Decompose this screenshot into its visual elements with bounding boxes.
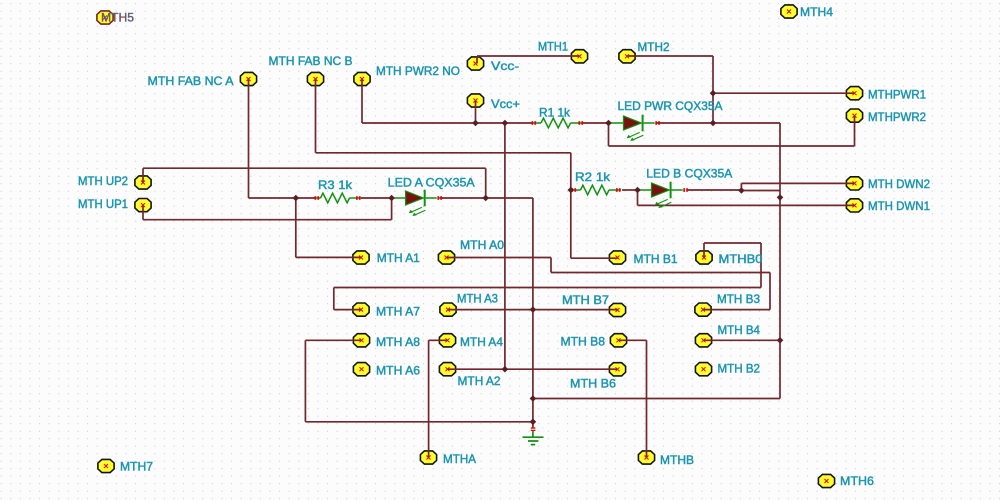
- svg-text:MTH B8: MTH B8: [561, 335, 606, 349]
- wire VCC- pad drop: [476, 56, 478, 64]
- wire net MTH1-VCC- horizontal: [477, 55, 580, 57]
- pad MTH A8: [353, 334, 369, 347]
- wire LED A cathode to ground vertical: [439, 197, 533, 199]
- svg-text:MTH B7: MTH B7: [562, 293, 609, 307]
- svg-text:MTH DWN1: MTH DWN1: [868, 199, 930, 213]
- wire horizontal y398 ground to x780: [533, 398, 780, 400]
- wire to MTH DWN2: [741, 183, 854, 190]
- pad MTH UP1: [135, 199, 151, 212]
- wire LED PWR cathode to x780: [657, 122, 780, 124]
- pad MTH A3: [440, 303, 456, 316]
- wire MTH B4 to x780: [704, 339, 781, 341]
- svg-text:LED B CQX35A: LED B CQX35A: [646, 167, 732, 181]
- resistor R3: [315, 197, 321, 199]
- resistor R2: [572, 189, 581, 191]
- wire MTH A8 to ground: [305, 340, 533, 422]
- svg-text:MTHB0: MTHB0: [719, 252, 763, 266]
- svg-text:MTH DWN2: MTH DWN2: [868, 177, 930, 191]
- pad MTH B1: [609, 251, 625, 264]
- svg-text:MTH A0: MTH A0: [460, 238, 504, 252]
- svg-text:MTH A2: MTH A2: [458, 374, 501, 388]
- pad MTHB0: [696, 251, 712, 264]
- svg-text:MTH B6: MTH B6: [570, 377, 616, 391]
- wire MTH A2 to MTH B6: [448, 368, 618, 370]
- svg-text:MTH A8: MTH A8: [376, 335, 420, 349]
- node junction ground y421: [530, 419, 537, 426]
- wire ground vertical x533: [532, 198, 534, 429]
- svg-text:R3 1k: R3 1k: [318, 178, 353, 192]
- wire LED B cathode to junction: [687, 189, 741, 191]
- wire vertical x780: [779, 123, 781, 399]
- pad MTH UP2: [135, 176, 151, 189]
- wire MTH B8 to MTHB: [619, 340, 647, 457]
- svg-text:MTH FAB NC A: MTH FAB NC A: [148, 74, 234, 88]
- svg-text:LED PWR CQX35A: LED PWR CQX35A: [618, 99, 723, 113]
- pad MTHB: [638, 451, 654, 464]
- svg-text:MTH2: MTH2: [638, 40, 670, 54]
- pad MTH A1: [353, 251, 369, 264]
- svg-text:MTH A4: MTH A4: [460, 335, 503, 349]
- svg-text:MTHA: MTHA: [443, 452, 476, 466]
- pad MTH6: [818, 474, 834, 487]
- wire R3 to LED A: [361, 197, 392, 199]
- svg-text:MTH B4: MTH B4: [718, 323, 761, 337]
- svg-text:MTH B3: MTH B3: [717, 292, 760, 306]
- pad MTH A7: [353, 303, 369, 316]
- pad MTH B3: [695, 303, 711, 316]
- wire R1 to LED PWR: [583, 122, 609, 124]
- pad MTH A2: [439, 363, 455, 376]
- node junction x780: [777, 194, 784, 201]
- LED A CQX35A diode: [391, 197, 406, 199]
- svg-text:MTH1: MTH1: [538, 40, 568, 54]
- wire junction to R3: [296, 197, 315, 199]
- pad MTH DWN1: [846, 199, 862, 212]
- wire junction to MTH A1: [296, 198, 361, 257]
- pad MTH PWR2 NO: [354, 72, 370, 85]
- resistor R1: [532, 122, 542, 124]
- node junction x713 main row: [710, 120, 717, 127]
- pad pin marks: [787, 10, 791, 14]
- wire junction to x780: [741, 190, 780, 192]
- wire MTH UP2 to LED A cathode: [143, 168, 486, 198]
- pad MTH B8: [610, 334, 626, 347]
- node junction LED A anode: [388, 195, 395, 202]
- wire MTH2 to vertical: [627, 55, 713, 57]
- node junction ground row A3-B7: [530, 306, 537, 313]
- node junction MTH B4 tap: [777, 337, 784, 344]
- node junction ground y398: [530, 395, 537, 402]
- pad MTH2: [619, 50, 635, 63]
- svg-text:MTHB: MTHB: [660, 453, 694, 467]
- wire to MTHPWR1: [713, 92, 855, 94]
- pad Vcc+: [467, 94, 483, 107]
- node junction LED A cathode: [482, 195, 489, 202]
- pad Vcc-: [467, 57, 483, 70]
- node junction R2 left: [568, 187, 575, 194]
- LED PWR CQX35A diode: [609, 122, 624, 124]
- node junction Vcc+ main row: [472, 120, 479, 127]
- svg-text:MTH7: MTH7: [120, 460, 153, 474]
- node junction LED PWR anode: [605, 120, 612, 127]
- pad MTHPWR2: [846, 109, 862, 122]
- svg-text:MTH5: MTH5: [101, 11, 134, 25]
- pad MTH1: [571, 50, 587, 63]
- LED B CQX35A diode: [637, 189, 652, 191]
- wire main row left segment: [362, 122, 532, 124]
- wire vertical x505: [504, 123, 506, 369]
- wire LED B anode to MTH DWN1: [638, 190, 855, 205]
- svg-text:MTH FAB NC B: MTH FAB NC B: [269, 54, 353, 68]
- pad MTH DWN2: [846, 177, 862, 190]
- svg-text:MTHPWR2: MTHPWR2: [868, 110, 926, 124]
- pad MTHA: [420, 451, 436, 464]
- svg-text:R2 1k: R2 1k: [575, 170, 611, 184]
- pad MTH FAB NC B: [307, 72, 323, 85]
- wire MTH FAB NC B to MTH B1: [316, 79, 618, 258]
- node junction x505 main row: [502, 120, 509, 127]
- wire MTH PWR2 NO drop: [361, 79, 363, 123]
- wire R2 to LED B: [622, 189, 638, 191]
- svg-text:LED A CQX35A: LED A CQX35A: [388, 175, 475, 189]
- svg-text:MTH A3: MTH A3: [457, 292, 498, 306]
- pad MTH B6: [609, 363, 625, 376]
- svg-text:MTH UP2: MTH UP2: [78, 174, 128, 188]
- ground: [531, 427, 536, 428]
- svg-text:MTH A7: MTH A7: [376, 305, 420, 319]
- node junction MTH A2 tap: [502, 366, 509, 373]
- pad MTHPWR1: [846, 87, 862, 100]
- node junction MTHPWR1 tap: [710, 90, 717, 97]
- wire MTHPWR2 path: [609, 116, 855, 146]
- svg-text:MTHPWR1: MTHPWR1: [868, 88, 926, 102]
- wire Vcc+ pad drop: [475, 101, 477, 124]
- svg-text:Vcc-: Vcc-: [491, 59, 519, 73]
- wire MTHB0 to MTH A7: [334, 243, 761, 310]
- wire MTH A3 to MTH B7: [448, 309, 618, 311]
- pad MTH B4: [695, 334, 711, 347]
- node junction LED B cathode: [738, 187, 745, 194]
- svg-text:MTH B2: MTH B2: [718, 362, 761, 376]
- pad MTH FAB NC A: [240, 72, 256, 85]
- wire MTH UP1 to LED A anode: [143, 198, 392, 220]
- pad MTH5: [97, 11, 113, 24]
- svg-text:MTH6: MTH6: [840, 474, 874, 488]
- pad MTH A6: [353, 363, 369, 376]
- svg-text:MTH4: MTH4: [800, 5, 833, 19]
- svg-text:MTH A1: MTH A1: [377, 251, 420, 265]
- node junction LED B anode: [634, 187, 641, 194]
- svg-text:Vcc+: Vcc+: [491, 97, 520, 111]
- wire MTH A0 to MTH B3: [447, 258, 771, 310]
- pad MTH4: [781, 5, 797, 18]
- svg-text:MTH UP1: MTH UP1: [78, 197, 128, 211]
- pad MTH7: [98, 459, 114, 472]
- svg-text:MTH PWR2 NO: MTH PWR2 NO: [376, 64, 460, 78]
- pad MTH A4: [439, 334, 455, 347]
- wire vertical x713: [712, 56, 714, 123]
- svg-text:MTH B1: MTH B1: [634, 252, 678, 266]
- pad MTH B2: [695, 363, 711, 376]
- wire MTH FAB NC A down: [249, 79, 296, 198]
- pad MTH A0: [438, 251, 454, 264]
- wire MTH A4 to MTHA: [429, 340, 448, 457]
- svg-text:MTH A6: MTH A6: [376, 364, 420, 378]
- svg-text:R1 1k: R1 1k: [539, 106, 571, 120]
- pad MTH B7: [609, 303, 625, 316]
- node junction R3 left: [293, 195, 300, 202]
